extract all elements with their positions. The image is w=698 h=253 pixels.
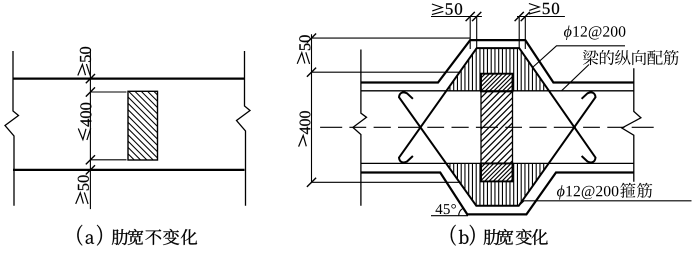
longitudinal rebar bottom (b) <box>361 162 634 164</box>
label phi12@200箍筋 (b) <box>557 183 652 200</box>
longitudinal rebar top (b) <box>361 90 634 92</box>
beam top edge (a) <box>13 77 245 79</box>
extension line outer corner left (b) <box>469 17 471 50</box>
tick top dim inner right (b) <box>515 12 524 21</box>
break line right (a) <box>237 51 251 206</box>
45 degree angle arc (b) <box>459 208 463 216</box>
dimension text <=400 (a) <box>78 103 91 140</box>
stirrup hatch bottom haunch (b) <box>450 163 548 205</box>
extension line inner corner left (b) <box>476 17 478 50</box>
leader phi12@200 (b) <box>533 46 626 68</box>
label 梁的纵向配筋 (b) <box>583 50 679 65</box>
bent bar V-shape with hooks (b) <box>399 92 596 205</box>
stirrup hatch top haunch (b) <box>450 48 548 91</box>
bent bar Lambda-shape with hooks (b) <box>399 48 596 162</box>
rib end block bottom dense hatch (b) <box>463 163 533 181</box>
label 45 degrees (b) <box>435 204 455 214</box>
dimension text >=50 top-left (b) <box>432 3 462 14</box>
tick at rib bottom (a) <box>86 155 95 164</box>
extension line outer corner right (b) <box>524 17 526 50</box>
break line left (a) <box>5 51 19 206</box>
center line (b) <box>320 126 654 128</box>
label phi12@200 (b) <box>564 25 625 40</box>
extension line rib top (b) <box>312 71 460 73</box>
beam/haunch outer outline top (b) <box>361 40 634 82</box>
caption (a) 肋宽不变化 <box>77 225 197 246</box>
dimension text >=50 top (a) <box>78 47 91 76</box>
tick rib bottom (b) <box>307 178 316 187</box>
extension line rib bottom (b) <box>312 181 460 183</box>
leader phi12@200箍筋 (b) <box>519 201 692 206</box>
rib end block top dense hatch (b) <box>463 74 532 92</box>
tick top dim outer right (b) <box>521 12 530 21</box>
top dimension line right (b) <box>517 16 565 18</box>
extension line inner corner right (b) <box>518 17 520 50</box>
45 degree reference line (b) <box>431 215 468 217</box>
cross rib hatched section (a) <box>59 91 229 160</box>
tick top dim outer left (b) <box>466 12 475 21</box>
caption (b) 肋宽变化 <box>451 225 548 246</box>
dimension text >=50 top-right (b) <box>529 3 559 14</box>
tick top dim inner left (b) <box>472 12 481 21</box>
break line right (b) <box>622 68 641 181</box>
dimension line left (b) <box>311 34 313 183</box>
dimension text >400 (b) <box>299 111 311 146</box>
extension line haunch top (b) <box>312 37 471 39</box>
top dimension line left (b) <box>431 16 482 18</box>
extension line rib bottom (a) <box>90 159 126 161</box>
dimension line (a) <box>89 49 91 209</box>
tick at beam top (a) <box>86 74 95 83</box>
tick at beam bottom (a) <box>86 165 95 174</box>
tick at rib top (a) <box>86 87 95 96</box>
beam/haunch outer outline bottom (b) <box>361 173 634 215</box>
tick haunch top (b) <box>307 34 316 43</box>
dimension text >=50 left (b) <box>297 35 310 64</box>
tick rib top (b) <box>307 68 316 77</box>
break line left (b) <box>353 50 367 206</box>
cross rib hatched (b) <box>409 91 588 163</box>
extension line rib top (a) <box>90 91 126 93</box>
beam bottom edge (a) <box>13 169 245 171</box>
leader 梁的纵向配筋 (b) <box>562 65 590 91</box>
dimension text >=50 bottom (a) <box>76 175 89 204</box>
